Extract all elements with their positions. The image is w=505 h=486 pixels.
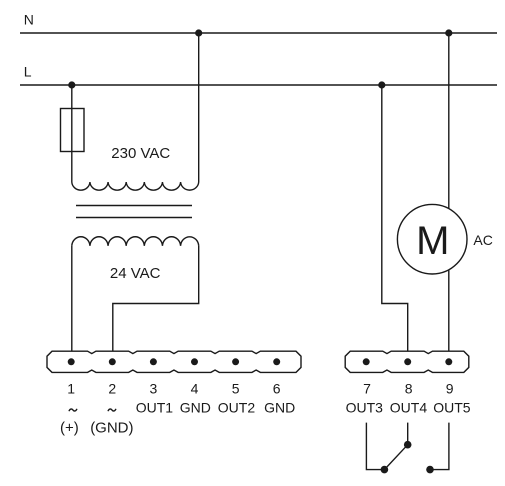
fuse F1 bbox=[61, 109, 85, 152]
terminal 3 contact bbox=[150, 358, 157, 365]
svg-text:AC: AC bbox=[473, 232, 492, 248]
terminal block TB2 terminals 7-9 bbox=[345, 351, 469, 372]
terminal block TB1 terminals 1-6 bbox=[47, 351, 301, 372]
svg-text:2: 2 bbox=[108, 381, 116, 397]
svg-text:L: L bbox=[24, 64, 32, 80]
svg-text:3: 3 bbox=[150, 381, 158, 397]
svg-text:OUT3: OUT3 bbox=[346, 400, 384, 416]
junction on L at fuse branch bbox=[68, 81, 75, 88]
svg-text:(+): (+) bbox=[60, 420, 79, 437]
label tilde terminal 2 bbox=[108, 409, 116, 411]
wire secondary left to terminal 1 bbox=[71, 246, 73, 351]
terminal 9 contact bbox=[445, 358, 452, 365]
junction on N at transformer branch bbox=[195, 29, 202, 36]
svg-text:M: M bbox=[416, 219, 449, 263]
transformer core line 2 bbox=[76, 217, 192, 219]
switch throw contact dot OUT3 side bbox=[381, 466, 389, 474]
svg-text:N: N bbox=[24, 12, 34, 28]
svg-text:4: 4 bbox=[191, 381, 199, 397]
wire OUT4 to switch pole bbox=[407, 423, 409, 445]
terminal 4 contact bbox=[191, 358, 198, 365]
wire N through motor to terminal 9 bbox=[448, 33, 450, 351]
wire OUT3 to switch throw contact bbox=[366, 423, 384, 470]
motor M1 bbox=[397, 204, 467, 274]
terminal 2 contact bbox=[109, 358, 116, 365]
svg-text:1: 1 bbox=[67, 381, 75, 397]
wire N line bbox=[20, 32, 497, 34]
switch S1 blade bbox=[384, 445, 407, 470]
terminal 7 contact bbox=[363, 358, 370, 365]
svg-text:GND: GND bbox=[180, 400, 211, 416]
svg-text:6: 6 bbox=[273, 381, 281, 397]
svg-text:24 VAC: 24 VAC bbox=[110, 265, 161, 282]
switch pole dot bbox=[404, 441, 412, 449]
terminal 5 contact bbox=[232, 358, 239, 365]
label tilde terminal 1 bbox=[69, 409, 77, 411]
terminal 8 contact bbox=[404, 358, 411, 365]
junction on N at motor branch bbox=[445, 29, 452, 36]
switch throw contact dot OUT5 side bbox=[426, 466, 434, 474]
wire L to fuse and primary left bbox=[71, 85, 73, 182]
terminal 1 contact bbox=[68, 358, 75, 365]
svg-text:OUT1: OUT1 bbox=[136, 400, 174, 416]
terminal 6 contact bbox=[273, 358, 280, 365]
junction on L at motor return branch bbox=[378, 81, 385, 88]
wire secondary right to terminal 2 bbox=[113, 246, 199, 351]
transformer T1 primary winding 230V bbox=[72, 182, 199, 190]
svg-text:230 VAC: 230 VAC bbox=[111, 145, 170, 162]
svg-text:OUT2: OUT2 bbox=[218, 400, 256, 416]
svg-text:5: 5 bbox=[232, 381, 240, 397]
transformer T1 secondary winding 24V bbox=[72, 237, 199, 246]
svg-text:OUT5: OUT5 bbox=[433, 400, 471, 416]
wire L line bbox=[20, 84, 497, 86]
svg-text:8: 8 bbox=[405, 381, 413, 397]
wire OUT5 to switch throw contact bbox=[430, 423, 449, 470]
svg-text:GND: GND bbox=[264, 400, 295, 416]
svg-text:9: 9 bbox=[446, 381, 454, 397]
wire L to terminal 8 bbox=[382, 85, 408, 351]
svg-text:OUT4: OUT4 bbox=[390, 400, 428, 416]
svg-text:7: 7 bbox=[363, 381, 371, 397]
wire N to primary right bbox=[198, 33, 200, 182]
svg-text:(GND): (GND) bbox=[90, 420, 133, 437]
transformer core line 1 bbox=[76, 205, 192, 207]
